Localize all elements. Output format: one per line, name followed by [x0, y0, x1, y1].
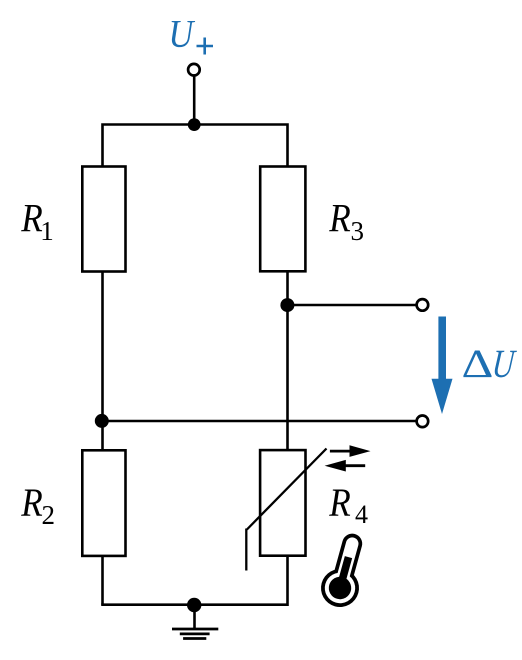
thermistor diagonal stroke [247, 449, 327, 530]
arrow delta-U [432, 317, 453, 415]
terminal U+ [188, 64, 200, 76]
label delta-U [462, 341, 519, 386]
ground bar 3 [183, 637, 206, 640]
wire bridge output lower [102, 420, 421, 423]
svg-text:3: 3 [351, 216, 365, 246]
terminal output upper [417, 299, 429, 311]
ground bar 1 [172, 628, 218, 631]
ground node junction [187, 598, 201, 612]
label R1 [20, 196, 53, 246]
svg-text:1: 1 [40, 216, 54, 246]
wire bridge output upper [287, 304, 421, 307]
resistor R4 thermistor body [260, 450, 305, 556]
node top junction [188, 118, 201, 131]
thermistor foot [245, 529, 247, 571]
svg-text:4: 4 [355, 500, 368, 529]
resistor R3 [260, 167, 305, 272]
wire node A to R2 [101, 421, 104, 451]
label R2 [20, 481, 55, 530]
wire U+ stub [193, 75, 196, 125]
label R4 [328, 481, 368, 529]
thermometer icon [317, 529, 374, 611]
ground stub [193, 605, 196, 629]
svg-text:Δ: Δ [462, 341, 494, 385]
wire R3 to node B [286, 271, 289, 305]
ground bar 2 [180, 633, 210, 636]
node B right mid junction [280, 298, 294, 312]
svg-text:R: R [328, 196, 350, 241]
terminal output lower [417, 416, 429, 428]
arrow heat exchange left [325, 460, 366, 472]
wire R2 to ground rail [101, 556, 104, 605]
svg-text:2: 2 [42, 500, 56, 530]
svg-text:U: U [169, 11, 196, 55]
wire bottom rail [103, 555, 288, 605]
node A left mid junction [95, 414, 109, 428]
label R3 [328, 196, 364, 246]
resistor R1 [82, 167, 125, 272]
wire top rail [103, 125, 288, 167]
label U+ [169, 11, 214, 55]
svg-text:R: R [20, 481, 42, 526]
arrow heat exchange right [330, 445, 371, 457]
wire node B to R4 [286, 305, 289, 451]
wire R1 to node A [101, 272, 104, 422]
resistor R2 [82, 450, 125, 556]
svg-text:U: U [490, 341, 518, 386]
svg-text:R: R [328, 481, 350, 526]
